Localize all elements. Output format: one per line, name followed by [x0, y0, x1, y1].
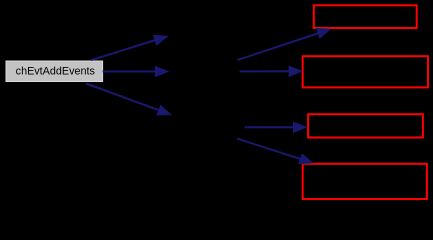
red box 1: [314, 5, 417, 28]
edge C: chEvtAddEvents to middle node 3: [86, 84, 172, 116]
edge D: middle node 2 to red box 1: [237, 28, 331, 60]
edge G: middle node 3 to red box 4: [237, 139, 314, 165]
edge A: chEvtAddEvents to middle node 1: [91, 35, 169, 60]
red box 2: [303, 56, 428, 87]
edge B: chEvtAddEvents to middle node 2: [103, 66, 170, 78]
edge E: middle node 2 to red box 2: [240, 66, 304, 78]
red box 3: [308, 114, 423, 137]
svg-text:chEvtAddEvents: chEvtAddEvents: [16, 65, 96, 77]
edge F: middle node 3 to red box 3: [245, 121, 308, 133]
red box 4: [303, 164, 427, 199]
node chEvtAddEvents (gray box): [6, 61, 103, 82]
